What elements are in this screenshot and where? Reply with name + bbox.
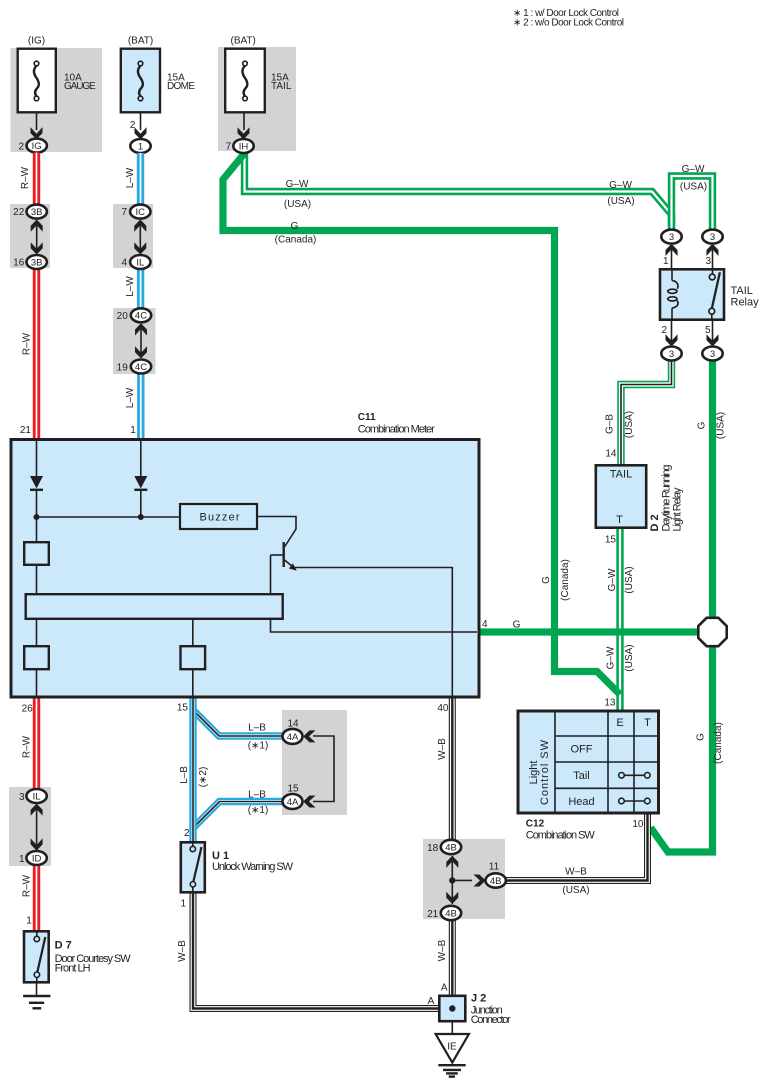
TAIL relay box — [660, 269, 724, 319]
D2 pin 14 label — [605, 449, 617, 460]
relay switch contact — [709, 269, 720, 320]
svg-text:R–W: R–W — [20, 166, 31, 189]
D2 pin 15 label — [605, 535, 617, 546]
svg-text:15: 15 — [605, 535, 617, 546]
wire G-W (USA) label top branch — [680, 182, 707, 193]
svg-text:IH: IH — [239, 141, 249, 152]
shading behind connector 4A pair — [282, 710, 347, 815]
fuse F3 15A TAIL — [225, 49, 292, 113]
wire D7 to ground — [36, 984, 38, 996]
svg-text:C12: C12 — [526, 818, 545, 829]
svg-text:4C: 4C — [135, 362, 147, 373]
junction connector J2 box — [439, 996, 465, 1021]
D2 TAIL terminal label — [610, 468, 632, 480]
diode D-left — [30, 476, 43, 490]
connector 4A upper — [283, 729, 303, 744]
svg-text:Front LH: Front LH — [55, 963, 91, 975]
wire loop between connector 4A pins — [313, 736, 334, 802]
svg-text:22: 22 — [13, 207, 25, 218]
D2 Daytime Running label rotated — [660, 465, 672, 532]
wire bus bar to R3 — [192, 619, 194, 647]
transistor Q1 — [271, 542, 297, 571]
fuse F1 10A GAUGE label (IG) — [28, 36, 45, 47]
shading behind connector 3B pair — [10, 204, 50, 268]
wire G-W D2 pin 15 to C12 pin 13 — [616, 529, 623, 710]
wire G label vertical — [541, 576, 552, 584]
svg-text:3: 3 — [705, 256, 711, 267]
wire L-W connector 4C to C11 pin 1 — [137, 374, 144, 440]
D7 designator label — [55, 939, 72, 951]
wire diode to junction — [140, 490, 142, 517]
svg-text:3: 3 — [710, 232, 715, 243]
D2 designator label rotated — [649, 514, 661, 531]
svg-text:4: 4 — [121, 257, 127, 268]
wire L-B label branch 15 — [248, 789, 266, 800]
svg-text:(∗1): (∗1) — [248, 741, 269, 752]
wire R-W C11 pin 26 to connector IL — [33, 698, 40, 789]
svg-text:(USA): (USA) — [624, 566, 635, 593]
svg-text:(Canada): (Canada) — [275, 234, 317, 245]
arrows between IC/IL pair — [134, 220, 146, 255]
svg-text:3B: 3B — [31, 257, 43, 268]
svg-text:16: 16 — [13, 257, 25, 268]
pin 7 label of connector IH — [226, 141, 232, 152]
node junction dot right — [138, 514, 144, 520]
wire G (USA) label — [715, 412, 726, 439]
connector IL — [130, 255, 150, 269]
pin 21 label — [20, 425, 32, 436]
svg-text:Connector: Connector — [471, 1014, 511, 1026]
pin 26 label — [22, 703, 34, 714]
C12 Tail row contact — [619, 773, 650, 779]
fuse F2 15A DOME — [121, 49, 196, 113]
svg-text:L–W: L–W — [125, 167, 136, 188]
connector 4A pin 14 label — [287, 718, 299, 729]
wire C11 internal pin 1 to diode — [140, 441, 142, 477]
C12 grid column line 1 — [554, 710, 556, 814]
pin 4 label — [482, 619, 488, 630]
svg-text:4B: 4B — [445, 842, 457, 853]
svg-text:G–W: G–W — [609, 180, 632, 191]
svg-text:19: 19 — [117, 362, 129, 373]
svg-text:(∗2): (∗2) — [198, 767, 209, 788]
svg-text:(BAT): (BAT) — [231, 36, 256, 47]
svg-text:3: 3 — [669, 232, 674, 243]
svg-text:L–W: L–W — [125, 387, 136, 408]
svg-text:A: A — [441, 983, 448, 994]
svg-text:11: 11 — [489, 861, 500, 872]
svg-text:Unlock Warning SW: Unlock Warning SW — [212, 861, 294, 873]
resistor block R3 — [181, 646, 206, 669]
wire L-B (1) variant label branch 15 — [248, 805, 269, 816]
wire L-W label — [125, 387, 136, 408]
svg-text:C11: C11 — [358, 412, 376, 423]
combination meter C11 box — [11, 440, 479, 698]
svg-text:21: 21 — [20, 425, 32, 436]
svg-text:4C: 4C — [135, 311, 147, 322]
wire G label — [696, 421, 707, 429]
svg-text:15: 15 — [287, 783, 299, 794]
wire R3 to C11 pin 15 — [192, 669, 194, 697]
svg-text:1: 1 — [180, 899, 186, 910]
wire W-B connector 4B pin 11 to C12 pin 10 — [506, 814, 648, 881]
U1 name label — [212, 861, 294, 873]
resistor block R2 — [24, 646, 49, 669]
wire G-B label — [605, 414, 616, 434]
connector 3B lower — [27, 255, 47, 269]
wire G label at pin 4 — [513, 620, 521, 631]
svg-text:1: 1 — [19, 854, 25, 865]
D7 pin 1 label — [26, 915, 32, 926]
wire G C11 pin 4 to splice — [479, 628, 707, 635]
wire G TAIL relay pin 5 to splice to C12 pin 10 — [651, 361, 713, 852]
svg-text:Combination Meter: Combination Meter — [358, 424, 435, 436]
node junction dot inside J2 — [449, 1005, 455, 1011]
relay pin 5 label — [705, 325, 711, 336]
relay pin 2 label — [661, 325, 667, 336]
svg-text:(USA): (USA) — [624, 644, 635, 671]
svg-text:2: 2 — [661, 325, 667, 336]
svg-text:(USA): (USA) — [624, 411, 635, 438]
C12 designator label — [526, 818, 545, 829]
wire L-W connector IL to connector 4C — [137, 269, 144, 309]
wire junction bus to buzzer — [37, 516, 181, 518]
shading behind fuse F1 — [11, 48, 103, 152]
C12 Tail row label — [573, 770, 590, 782]
note: variant legend — [513, 8, 624, 29]
wire transistor emitter to C11 pin 40 — [295, 568, 453, 698]
svg-text:G: G — [696, 421, 707, 429]
wire L-B (1) variant label branch 14 — [248, 741, 269, 752]
svg-text:R–W: R–W — [21, 735, 32, 758]
wire R-W label — [22, 332, 33, 355]
svg-text:T: T — [616, 514, 623, 526]
wire W-B C11 pin 40 to connector 4B pin 18 — [449, 698, 456, 840]
wire R-W label — [20, 166, 31, 189]
connector 3B upper — [27, 205, 47, 219]
svg-text:W–B: W–B — [437, 939, 448, 961]
connector 4C pin 20 label — [117, 311, 129, 322]
svg-text:IE: IE — [447, 1041, 457, 1052]
svg-text:G–W: G–W — [682, 164, 705, 175]
wire relay pin 2 lead — [671, 320, 673, 342]
wire J2 to ground IE — [451, 1023, 453, 1035]
svg-text:10: 10 — [632, 819, 644, 830]
relay pin 3 label — [705, 256, 711, 267]
pin 15 label — [177, 703, 189, 714]
wire fuse F3 to connector IH — [243, 114, 245, 131]
ground below D7 — [23, 996, 50, 1008]
svg-text:(∗1): (∗1) — [248, 805, 269, 816]
svg-text:2: 2 — [18, 141, 24, 152]
wire R-W label — [21, 735, 32, 758]
connector IC pin 7 label — [121, 207, 127, 218]
svg-text:W–B: W–B — [565, 866, 587, 877]
shading behind fuse F3 — [218, 47, 296, 151]
svg-text:14: 14 — [605, 449, 617, 460]
svg-text:E: E — [616, 717, 623, 729]
arrow into connector 4A lower — [303, 796, 315, 808]
svg-text:Control SW: Control SW — [539, 739, 551, 805]
svg-text:G–B: G–B — [605, 414, 616, 434]
wire G (Canada) label vertical — [560, 559, 571, 601]
wire G-W (USA) label lower — [624, 644, 635, 671]
wire relay pin 3 lead — [712, 247, 714, 269]
svg-text:IL: IL — [33, 791, 41, 802]
svg-text:(USA): (USA) — [607, 196, 634, 207]
wire L-B branch to connector 4A pin 14 — [193, 710, 283, 736]
pin 2 label of fuse F2 output — [130, 120, 136, 131]
arrow into connector IH — [238, 127, 250, 139]
wire W-B label — [437, 738, 448, 760]
svg-text:G: G — [513, 620, 521, 631]
svg-text:L–B: L–B — [248, 723, 266, 734]
connector IL lower group — [26, 789, 46, 803]
svg-text:3B: 3B — [31, 207, 43, 218]
svg-text:40: 40 — [437, 703, 449, 714]
svg-text:L–B: L–B — [179, 766, 190, 784]
ground IE triangle — [436, 1034, 469, 1063]
C12 pin 13 label — [604, 698, 616, 709]
wire W-B connector 4B pin 21 to junction connector J2 — [449, 920, 456, 995]
svg-text:G: G — [541, 576, 552, 584]
connector ID — [26, 851, 46, 865]
svg-text:Combination SW: Combination SW — [526, 830, 596, 842]
wire L-B C11 pin 15 to U1 pin 2 — [189, 698, 196, 841]
svg-text:Light Relay: Light Relay — [672, 487, 684, 532]
J2 name label line 2 — [471, 1014, 511, 1026]
node junction dot left — [34, 514, 40, 520]
svg-text:G: G — [291, 221, 299, 232]
wire transistor base to bus bar — [270, 555, 272, 594]
arrows between IL/ID pair — [31, 804, 43, 851]
C12 E column label — [616, 717, 623, 729]
pin 2 label of connector IG — [18, 141, 24, 152]
wire W-B (USA) label horizontal — [562, 885, 589, 896]
connector 3 above relay pin 1 — [661, 230, 681, 244]
C11 Combination Meter label — [358, 424, 435, 436]
svg-text:(USA): (USA) — [562, 885, 589, 896]
connector ID pin 1 label — [19, 854, 25, 865]
svg-text:G: G — [695, 733, 706, 741]
svg-text:∗ 2 : w/o Door Lock Control: ∗ 2 : w/o Door Lock Control — [513, 18, 624, 29]
arrow into connector 3 pin 3 — [707, 244, 719, 256]
svg-text:D 2: D 2 — [649, 514, 661, 531]
svg-text:IG: IG — [32, 141, 42, 152]
svg-text:R–W: R–W — [22, 332, 33, 355]
splice octagon — [698, 618, 726, 646]
wire fuse F1 to connector IG — [36, 114, 38, 131]
U1 pin 1 label — [180, 899, 186, 910]
C12 Light Control SW label rotated — [528, 739, 551, 805]
svg-text:GAUGE: GAUGE — [64, 81, 96, 92]
pin 1 label — [130, 425, 136, 436]
svg-text:4A: 4A — [287, 797, 299, 808]
C12 grid row line 3 — [555, 787, 659, 789]
resistor block R1 — [24, 542, 49, 565]
fuse F3 15A TAIL label (BAT) — [231, 36, 256, 47]
svg-text:W–B: W–B — [177, 940, 188, 962]
buzzer box — [180, 504, 257, 529]
wire L-B label — [179, 766, 190, 784]
wire bus bar to R2 — [36, 619, 38, 647]
svg-text:3: 3 — [669, 349, 674, 360]
J2 pin A label left — [428, 996, 435, 1007]
svg-text:TAIL: TAIL — [610, 468, 632, 480]
arrow into connector 1 — [135, 127, 147, 139]
connector 3B pin 16 label — [13, 257, 25, 268]
svg-text:3: 3 — [19, 792, 25, 803]
wire G-W label upper — [607, 568, 618, 591]
TAIL relay name label — [731, 285, 760, 309]
wire relay pin 1 lead — [671, 247, 673, 269]
connector 4A pin 15 label — [287, 783, 299, 794]
U1 switch contact — [190, 842, 201, 893]
wire G-W (USA) label left — [284, 199, 311, 210]
svg-text:D 7: D 7 — [55, 939, 72, 951]
svg-text:2: 2 — [184, 828, 190, 839]
D7 switch contact — [34, 931, 45, 983]
connector 4C lower — [131, 360, 151, 374]
svg-text:7: 7 — [226, 141, 232, 152]
unlock warning switch U1 box — [181, 842, 205, 892]
J2 name label — [471, 1004, 503, 1016]
wire L-B branch to connector 4A pin 15 — [193, 802, 283, 829]
arrow into connector IG — [31, 127, 43, 139]
arrow into connector 3 below relay pin 5 — [707, 334, 719, 346]
svg-text:21: 21 — [427, 909, 439, 920]
wire G-B TAIL relay pin 2 to D2 pin 14 — [621, 361, 672, 465]
node junction dot on 4B wire — [449, 877, 455, 883]
wire W-B label — [177, 940, 188, 962]
svg-text:Relay: Relay — [731, 297, 760, 309]
svg-text:5: 5 — [705, 325, 711, 336]
svg-text:1: 1 — [130, 425, 136, 436]
wire L-W label — [125, 167, 136, 188]
svg-text:TAIL: TAIL — [271, 81, 292, 92]
C12 Head row label — [568, 796, 594, 808]
combination switch C12 box — [518, 711, 659, 813]
arrow into connector 4B pin 11 — [473, 875, 485, 887]
C12 grid row line 2 — [555, 761, 659, 763]
wire R1 to bus bar — [36, 565, 38, 594]
svg-text:A: A — [428, 996, 435, 1007]
J2 pin A label top — [441, 983, 448, 994]
connector 4B lower — [441, 906, 461, 920]
svg-text:20: 20 — [117, 311, 129, 322]
wire G-W (USA) label upper — [624, 566, 635, 593]
wire G-W branch to TAIL relay pin 3 connector — [672, 176, 713, 230]
arrows between 3B pair — [31, 220, 43, 255]
connector 3 above relay pin 3 — [702, 230, 722, 244]
connector 4B pin 21 label — [427, 909, 439, 920]
wire diode to junction — [36, 490, 38, 542]
D2 T terminal label — [616, 514, 623, 526]
wire G-W (USA) label right — [607, 196, 634, 207]
svg-text:4: 4 — [482, 619, 488, 630]
wire G-W label top branch — [682, 164, 705, 175]
C12 Combination SW label — [526, 830, 596, 842]
svg-text:1: 1 — [138, 141, 143, 152]
wire R-W connector ID to D7 pin 1 — [33, 865, 40, 930]
connector 4C upper — [131, 308, 151, 322]
wire G-W label left — [286, 179, 309, 190]
connector IG — [27, 139, 47, 153]
svg-text:(IG): (IG) — [28, 36, 45, 47]
svg-text:4B: 4B — [445, 908, 457, 919]
D7 name label — [55, 953, 132, 965]
svg-text:G–W: G–W — [286, 179, 309, 190]
ground IE bars — [438, 1065, 465, 1076]
shading behind connector IL/ID pair — [9, 787, 51, 866]
C12 T column label — [644, 717, 651, 729]
wire L-W label — [125, 276, 136, 297]
wire R2 to C11 pin 26 — [36, 669, 38, 697]
wire fuse F2 to connector 1 — [140, 114, 142, 131]
connector 4B right — [486, 873, 506, 887]
C12 grid column line 2 — [607, 710, 609, 814]
shading behind connector 4C pair — [113, 308, 156, 374]
svg-text:(USA): (USA) — [284, 199, 311, 210]
connector IH — [233, 139, 253, 153]
svg-text:G–W: G–W — [606, 646, 617, 669]
svg-text:T: T — [644, 717, 651, 729]
wire G-W label right — [609, 180, 632, 191]
relay pin 1 label — [663, 256, 669, 267]
shading behind connector IC/IL pair — [113, 204, 153, 268]
svg-text:Daytime Running: Daytime Running — [660, 465, 672, 532]
wire W-B U1 pin 1 to junction connector J2 — [193, 894, 439, 1009]
fuse F1 10A GAUGE — [18, 49, 96, 113]
svg-text:Tail: Tail — [573, 770, 590, 782]
svg-text:(Canada): (Canada) — [560, 559, 571, 601]
arrows and junction between 4B pair — [446, 856, 458, 904]
pin 40 label — [437, 703, 449, 714]
fuse F2 15A DOME label (BAT) — [128, 36, 153, 47]
wire R-W connector 3B to C11 pin 21 — [33, 269, 40, 439]
connector 4B upper — [441, 840, 461, 854]
D7 Front LH label — [55, 963, 91, 975]
svg-text:G–W: G–W — [607, 568, 618, 591]
arrows between 4C pair — [135, 323, 147, 358]
wire R-W fuse IG to connector 3B — [33, 153, 40, 206]
svg-text:ID: ID — [32, 853, 42, 864]
svg-text:DOME: DOME — [167, 81, 195, 92]
svg-text:R–W: R–W — [21, 874, 32, 897]
svg-text:L–B: L–B — [248, 789, 266, 800]
svg-text:1: 1 — [663, 256, 669, 267]
D2 Light Relay label rotated — [672, 487, 684, 532]
wire G-B (USA) label — [624, 411, 635, 438]
svg-text:TAIL: TAIL — [731, 285, 753, 297]
J2 designator label — [471, 993, 486, 1005]
C12 pin 10 label — [632, 819, 644, 830]
wire G (Canada) labels right side — [695, 733, 706, 741]
wire junction to connector 4B pin 11 — [452, 879, 472, 881]
svg-text:7: 7 — [121, 207, 127, 218]
relay coil — [668, 269, 678, 320]
svg-text:13: 13 — [604, 698, 616, 709]
connector 3 below relay pin 5 — [702, 347, 722, 361]
C12 OFF row label — [571, 744, 593, 756]
bus bar — [26, 594, 283, 619]
door courtesy switch D7 box — [24, 931, 49, 982]
svg-text:1: 1 — [26, 915, 32, 926]
connector 4A lower — [283, 794, 303, 809]
wire C11 internal pin 21 to diode — [36, 441, 38, 477]
connector 3 below relay pin 2 — [661, 347, 681, 361]
C12 grid row line 1 — [555, 735, 659, 737]
